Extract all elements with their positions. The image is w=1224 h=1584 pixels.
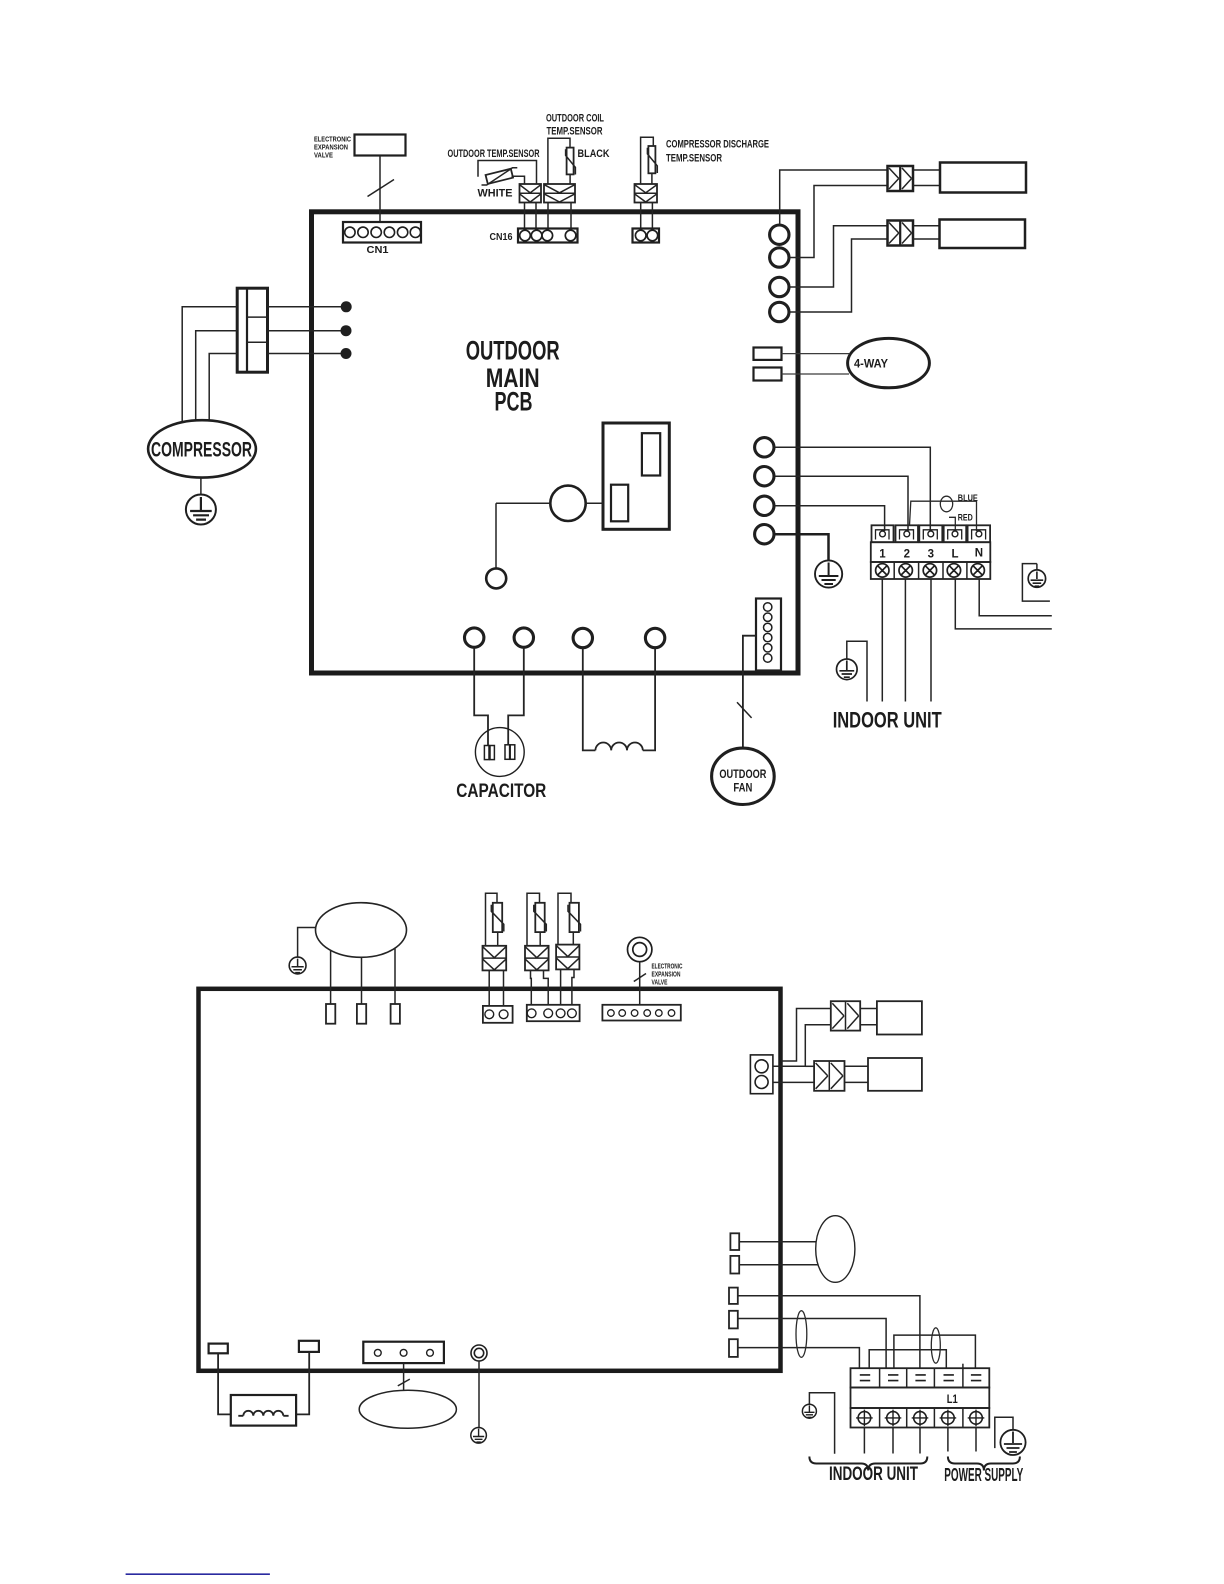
- junction dot 3: [341, 348, 352, 359]
- ground bracket (power side): [1022, 564, 1050, 602]
- label RED: [958, 513, 973, 524]
- svg-text:ELECTRONIC: ELECTRONIC: [652, 964, 683, 971]
- label: OUTDOOR TEMP.SENSOR: [448, 148, 540, 160]
- wire circle4 to valve B: [789, 239, 888, 312]
- fan ellipse (lower): [359, 1390, 456, 1428]
- right edge pad R5: [729, 1339, 738, 1357]
- slash on fan wire (lower): [398, 1379, 410, 1386]
- pins connector2 to 4-hole: [531, 970, 549, 1004]
- terminal block (indoor unit) top pin cells: [872, 525, 991, 542]
- wires pads to reactor ellipse: [739, 1242, 818, 1265]
- wire riser to valve C lower: [773, 1025, 831, 1067]
- slash on EEV wire (lower): [634, 974, 646, 982]
- load C rectangle: [877, 1001, 922, 1034]
- plug connector 1 (lower): [483, 946, 507, 971]
- right edge pad R4: [729, 1311, 738, 1329]
- svg-text:COMPRESSOR: COMPRESSOR: [151, 439, 252, 462]
- valve C (solenoid lower): [831, 1001, 860, 1030]
- wire ellipse to ground: [298, 928, 316, 958]
- label electronic expansion valve (lower): [652, 964, 683, 987]
- svg-text:CN1: CN1: [367, 244, 389, 256]
- label BLUE: [958, 493, 978, 504]
- wires block to PCB junction dots: [268, 307, 347, 354]
- thermistor 1: [491, 903, 504, 932]
- 2-circle connector on right edge: [750, 1055, 773, 1094]
- wire circle to terminal 2: [774, 476, 908, 531]
- svg-text:L: L: [951, 549, 958, 561]
- plug connector (discharge sensor): [635, 184, 658, 203]
- wire circle1 to valve D upper: [805, 1065, 814, 1067]
- wire circle1 to valve A: [780, 170, 888, 225]
- compressor connector block: [237, 288, 267, 372]
- thermistor 3: [568, 903, 581, 932]
- outdoor fan ellipse: [712, 748, 775, 804]
- electronic expansion valve EEV label: [314, 135, 351, 160]
- pad rect 1: [326, 1004, 335, 1024]
- PCB bottom circles: [465, 628, 665, 648]
- label INDOOR UNIT (lower): [829, 1463, 918, 1485]
- svg-text:INDOOR UNIT: INDOOR UNIT: [829, 1463, 918, 1485]
- terminal block L1 top row: [851, 1364, 990, 1388]
- valve A (solenoid): [888, 166, 914, 191]
- label CN16: [490, 231, 513, 243]
- wire circle2 to valve D lower: [773, 1081, 814, 1083]
- wire EEV to ground: [478, 1361, 480, 1428]
- valve B (solenoid): [888, 221, 914, 246]
- svg-text:VALVE: VALVE: [314, 151, 333, 160]
- heater B rectangle: [940, 220, 1026, 249]
- reactor box with coil: [231, 1395, 296, 1426]
- red wire loop to L: [949, 517, 955, 531]
- connector CN1: [343, 222, 421, 243]
- plug connector 3 (lower): [556, 945, 579, 970]
- wire R3 to L1 cell3: [738, 1296, 920, 1369]
- valve D (solenoid lower): [814, 1061, 844, 1091]
- ground (PCB right): [815, 560, 842, 587]
- label BLACK: [578, 148, 610, 160]
- loop ellipse (link wires): [931, 1328, 940, 1363]
- wire circle2 to valve A: [789, 186, 888, 258]
- wires pads to 4-way: [782, 354, 850, 374]
- ground (compressor): [186, 495, 216, 525]
- wire thermistor2 to connector: [539, 932, 541, 946]
- wire R4 to L1 cell2: [738, 1319, 886, 1369]
- plug connector 2 (lower): [525, 946, 549, 971]
- wire L: [955, 579, 1052, 629]
- svg-text:OUTDOOR: OUTDOOR: [719, 767, 766, 781]
- wire N: [979, 579, 1052, 616]
- wires valve A to heater A: [913, 170, 940, 186]
- compressor ellipse: [148, 420, 256, 477]
- svg-text:FAN: FAN: [733, 781, 752, 795]
- wire compressor to ground: [200, 478, 202, 495]
- load D rectangle: [868, 1058, 922, 1091]
- ground (indoor unit earth): [837, 641, 868, 701]
- wires tabs to reactor box: [218, 1352, 309, 1415]
- lower PCB board outline: [199, 989, 781, 1371]
- wires to capacitor: [474, 647, 524, 745]
- pad rect 3: [391, 1004, 400, 1024]
- svg-text:OUTDOOR: OUTDOOR: [466, 336, 560, 366]
- wire circle3 to valve B: [789, 226, 888, 287]
- wire loop ellipse (blue/red pair): [940, 496, 952, 512]
- relay circle: [550, 486, 585, 521]
- right edge pad R2: [730, 1256, 739, 1274]
- wires valve D to load D: [845, 1066, 869, 1082]
- wire loop discharge sensor: [641, 137, 654, 184]
- svg-text:TEMP.SENSOR: TEMP.SENSOR: [666, 153, 722, 165]
- pins connector1 to 2-hole: [489, 970, 503, 1006]
- ground (lower compressor): [289, 957, 306, 974]
- svg-text:CN16: CN16: [490, 231, 513, 243]
- 4-hole connector (lower): [527, 1005, 580, 1021]
- right edge circles (middle group): [755, 438, 774, 544]
- electronic expansion valve symbol: [355, 135, 406, 156]
- terminal block L1 screw row: [851, 1408, 990, 1428]
- thermistor outdoor coil sensor (black): [566, 148, 576, 175]
- thermistor outdoor temp sensor (white): [482, 168, 518, 185]
- wire EEV to CN1: [379, 156, 381, 223]
- svg-text:POWER SUPPLY: POWER SUPPLY: [944, 1464, 1023, 1485]
- lower compressor ellipse: [316, 903, 407, 958]
- thermistor sensor 2 loop: [527, 893, 540, 946]
- thermistor compressor discharge sensor: [647, 146, 657, 173]
- ground (lower indoor unit): [802, 1393, 834, 1454]
- ground (power supply): [995, 1417, 1026, 1455]
- wire connector to fan ellipse: [403, 1363, 405, 1390]
- reactor ellipse (right): [816, 1216, 855, 1283]
- svg-text:COMPRESSOR DISCHARGE: COMPRESSOR DISCHARGE: [666, 139, 769, 151]
- junction dot 2: [341, 325, 352, 336]
- capacitor circle: [475, 728, 524, 777]
- svg-text:1: 1: [879, 549, 886, 561]
- svg-text:VALVE: VALVE: [652, 980, 668, 987]
- thermistor 2: [534, 903, 547, 932]
- label OUTDOOR FAN: [719, 767, 766, 795]
- svg-text:WHITE: WHITE: [478, 188, 513, 200]
- terminal block middle band with labels: [871, 542, 991, 562]
- wires block to compressor: [182, 307, 237, 423]
- pins coil connector to CN16: [548, 203, 571, 229]
- wire R5 to L1 cell1: [738, 1348, 860, 1369]
- pad rect 2: [357, 1004, 366, 1024]
- inductor wires and coil: [583, 648, 655, 751]
- label POWER SUPPLY: [944, 1464, 1023, 1485]
- svg-text:3: 3: [928, 549, 934, 561]
- label INDOOR UNIT: [833, 708, 942, 733]
- outdoor main PCB board outline: [312, 212, 799, 673]
- svg-text:L1: L1: [947, 1394, 958, 1406]
- svg-text:EXPANSION: EXPANSION: [652, 972, 681, 979]
- pins white connector to CN16: [525, 203, 537, 229]
- 3-hole connector (lower left): [363, 1342, 444, 1363]
- right edge circles (top group): [770, 225, 789, 322]
- wire sensor to connector: [512, 176, 525, 184]
- pins connector3 to 4-hole: [561, 969, 574, 1004]
- pins discharge connector: [641, 203, 653, 229]
- blue wire terminal2 to N: [910, 501, 977, 531]
- footer rule: [126, 1573, 270, 1575]
- connector CN16: [518, 229, 578, 243]
- wire EEV to 6-hole connector: [639, 962, 641, 1005]
- EEV coil symbol (lower): [628, 937, 652, 961]
- label: OUTDOOR COIL TEMP.SENSOR: [546, 113, 604, 138]
- capacitor plates: [484, 745, 514, 760]
- brace power supply: [948, 1457, 1020, 1471]
- svg-text:RED: RED: [958, 513, 973, 524]
- wire circle to terminal 3: [774, 447, 930, 531]
- 6-hole connector (lower): [602, 1005, 680, 1021]
- thermistor sensor 1 loop: [486, 893, 498, 946]
- brace indoor unit: [809, 1457, 927, 1471]
- label CN1: [367, 244, 389, 256]
- label: COMPRESSOR DISCHARGE TEMP.SENSOR: [666, 139, 769, 165]
- EEV double circle (lower left): [471, 1345, 487, 1361]
- wires below L1: [864, 1428, 976, 1454]
- plug connector (white sensor): [520, 184, 542, 203]
- label: OUTDOOR MAIN PCB: [466, 336, 560, 417]
- wire circle4 to ground: [774, 534, 829, 560]
- svg-text:OUTDOOR TEMP.SENSOR: OUTDOOR TEMP.SENSOR: [448, 148, 540, 160]
- terminal block L1 middle band: [851, 1388, 990, 1409]
- svg-text:CAPACITOR: CAPACITOR: [456, 780, 546, 802]
- wire loop outdoor temp sensor: [478, 161, 537, 185]
- svg-text:BLUE: BLUE: [958, 493, 978, 504]
- wire thermistor to connector: [651, 173, 653, 184]
- 2-hole connector (lower): [483, 1006, 513, 1023]
- 4-way valve pads on PCB: [754, 348, 782, 381]
- svg-text:N: N: [975, 548, 983, 560]
- ground (lower left): [471, 1428, 487, 1444]
- wire thermistor3 to connector: [572, 932, 574, 945]
- svg-text:2: 2: [904, 549, 910, 561]
- bottom edge tab 2: [299, 1341, 319, 1352]
- loop ellipse over wires: [796, 1311, 807, 1358]
- label COMPRESSOR: [151, 439, 252, 462]
- wire loop coil sensor: [548, 138, 570, 184]
- link wire cell2-cell5: [894, 1335, 976, 1368]
- link wire cell1-cell4: [869, 1350, 946, 1369]
- plug connector (coil sensor): [544, 184, 575, 203]
- wire riser to valve C upper: [781, 1009, 831, 1062]
- junction dot 1: [341, 301, 352, 312]
- wires valve B to heater B: [913, 226, 940, 239]
- terminal block screw row: [871, 562, 991, 579]
- wires relay: [496, 503, 603, 568]
- svg-text:PCB: PCB: [495, 387, 533, 417]
- thermistor sensor 3 loop: [558, 893, 571, 944]
- label WHITE: [478, 188, 513, 200]
- wire connector to outdoor fan: [743, 636, 756, 749]
- svg-text:BLACK: BLACK: [578, 148, 610, 160]
- 2-hole connector (discharge): [633, 229, 660, 243]
- 6-hole connector (fan): [756, 599, 781, 671]
- IC block on PCB: [603, 423, 669, 529]
- three wires ellipse to pads: [331, 949, 395, 1004]
- right edge pad R1: [730, 1233, 739, 1250]
- right edge pad R3: [729, 1288, 738, 1304]
- wires valve C to load C: [860, 1009, 877, 1025]
- svg-text:OUTDOOR COIL: OUTDOOR COIL: [546, 113, 604, 125]
- svg-text:TEMP.SENSOR: TEMP.SENSOR: [547, 126, 603, 138]
- wires below terminal block 1,2,3: [882, 579, 931, 702]
- heater A rectangle: [940, 163, 1026, 193]
- slash on EEV wire: [368, 180, 395, 197]
- label CAPACITOR: [456, 780, 546, 802]
- wire thermistor1 to connector: [497, 932, 499, 946]
- small node circle: [486, 568, 506, 588]
- svg-text:INDOOR UNIT: INDOOR UNIT: [833, 708, 942, 733]
- svg-text:4-WAY: 4-WAY: [854, 359, 888, 371]
- label 4-WAY: [854, 359, 888, 371]
- wire thermistor to connector: [569, 174, 571, 184]
- 4-way valve ellipse: [848, 338, 930, 387]
- wire circle to terminal 1: [774, 506, 885, 531]
- slash on fan wire: [737, 702, 752, 718]
- bottom edge tab 1: [209, 1344, 228, 1354]
